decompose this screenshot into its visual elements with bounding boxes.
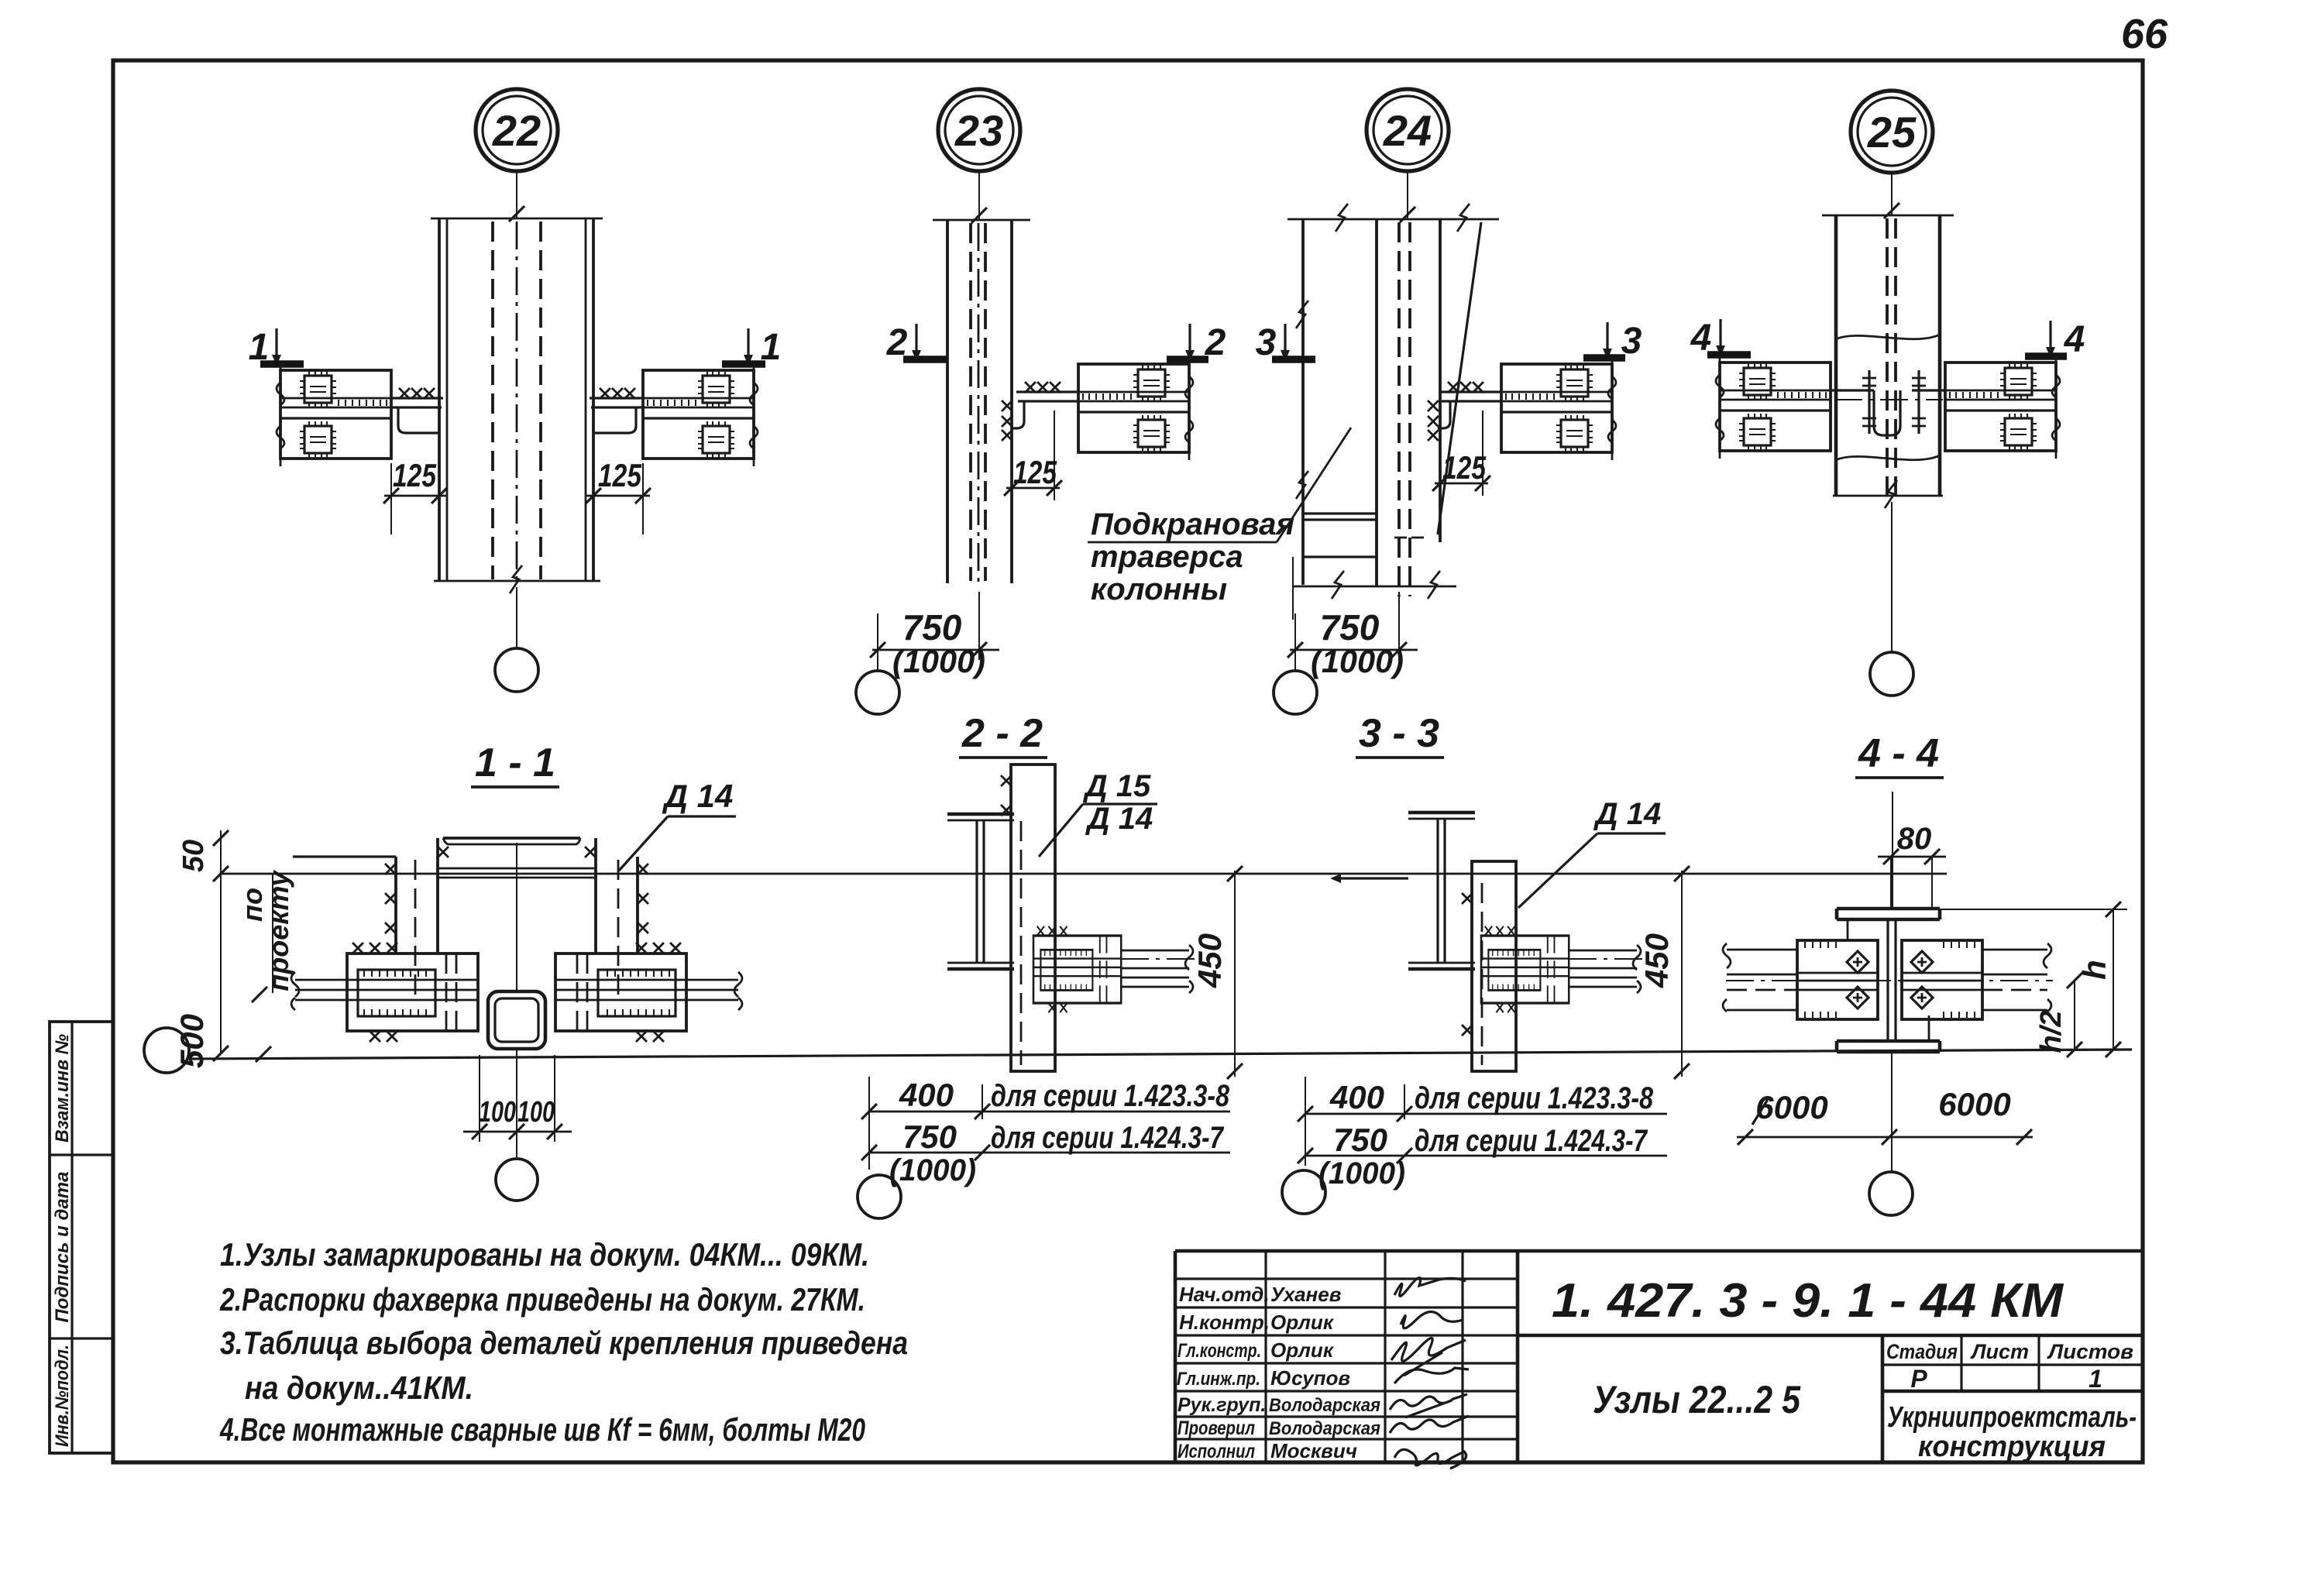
svg-text:100: 100 — [479, 1096, 516, 1129]
svg-text:для серии 1.423.3-8: для серии 1.423.3-8 — [1415, 1081, 1654, 1115]
svg-text:h: h — [2076, 960, 2113, 980]
svg-text:2 - 2: 2 - 2 — [961, 711, 1043, 756]
section mark 1 (left) — [249, 327, 304, 368]
axis bubble below detail 23 — [856, 671, 899, 714]
fastening assembly of detail 24 — [1501, 358, 1616, 460]
svg-text:400: 400 — [1329, 1079, 1384, 1115]
svg-text:750: 750 — [902, 1118, 957, 1155]
dimension h and h/2 — [1940, 902, 2127, 1057]
strut I-beam top flange — [443, 837, 580, 840]
dimension 100 100 — [463, 1055, 572, 1142]
column 23 flange lines — [946, 220, 949, 583]
column 22 axis line — [516, 173, 517, 218]
square tube column — [488, 991, 545, 1049]
crack wave upper — [1836, 335, 1940, 339]
svg-text:для серии 1.424.3-7: для серии 1.424.3-7 — [991, 1121, 1224, 1155]
right splice assembly of 4-4 — [1902, 940, 1982, 1019]
svg-text:Проверил: Проверил — [1177, 1417, 1255, 1439]
gusset plate D15/D14 — [1001, 765, 1055, 1071]
section label 3-3 — [1356, 711, 1444, 758]
section mark 2 (right) — [1167, 322, 1226, 363]
svg-text:1.Узлы замаркированы на докум.: 1.Узлы замаркированы на докум. 04КМ... 0… — [220, 1236, 869, 1273]
gusset plate of section 3-3 — [1462, 861, 1516, 1071]
svg-text:750: 750 — [1320, 607, 1380, 648]
svg-text:Д 14: Д 14 — [1593, 797, 1662, 831]
svg-text:Укрниипроектсталь-: Укрниипроектсталь- — [1887, 1401, 2137, 1434]
svg-text:колонны: колонны — [1091, 572, 1227, 606]
svg-text:Узлы 22...2 5: Узлы 22...2 5 — [1593, 1378, 1801, 1421]
title block (stamp) — [1175, 1251, 2143, 1469]
long upper datum line — [221, 873, 1947, 875]
svg-text:Подкрановая: Подкрановая — [1091, 507, 1294, 541]
section mark 1 (right) — [722, 327, 781, 368]
column 24 top cut line — [1287, 218, 1499, 221]
svg-text:750: 750 — [902, 607, 962, 648]
column 23 hidden lines — [971, 223, 985, 581]
svg-text:Юсупов: Юсупов — [1270, 1366, 1350, 1390]
column 24 web line — [1375, 219, 1378, 586]
svg-text:траверса: траверса — [1091, 540, 1243, 574]
axis bubble below detail 25 — [1870, 652, 1913, 696]
splice U strap — [1874, 390, 1900, 435]
column 22 bottom break — [434, 580, 600, 582]
dimension 750 (1000) of detail 24 — [1287, 592, 1418, 679]
crack wave lower — [1836, 455, 1940, 460]
beam top flange edge left — [293, 855, 396, 857]
signatures — [1394, 1277, 1466, 1296]
svg-text:Стадия: Стадия — [1886, 1340, 1958, 1363]
right fastening assembly of detail 22 — [643, 364, 758, 466]
detail 23 bubble — [938, 89, 1020, 171]
beam stubs right with break — [1569, 950, 1637, 987]
svg-text:450: 450 — [1638, 933, 1675, 988]
svg-text:Рук.груп.: Рук.груп. — [1177, 1394, 1266, 1416]
svg-text:66: 66 — [2121, 11, 2168, 57]
section mark 4 (right) — [2025, 319, 2085, 360]
svg-text:Подпись и дата: Подпись и дата — [52, 1172, 73, 1323]
series table under section 3-3 — [1298, 1077, 1667, 1191]
fachwerk post I-section — [947, 814, 1014, 969]
left beam plate stubs with break — [295, 980, 347, 1000]
section mark 2 (left) — [886, 322, 947, 363]
assembly of section 3-3 — [1481, 926, 1569, 1012]
svg-text:125: 125 — [1442, 449, 1487, 486]
beam stubs right with break — [1121, 950, 1189, 987]
angle cleat of detail 23 — [1012, 401, 1024, 428]
svg-text:Инв.№подл.: Инв.№подл. — [52, 1345, 73, 1447]
svg-text:125: 125 — [393, 457, 437, 493]
left angle cleat — [398, 407, 439, 433]
svg-text:25: 25 — [1867, 108, 1917, 156]
dimension 450 of section 2-2 — [1191, 866, 1243, 1079]
axis line to bubble below 22 — [516, 587, 517, 649]
section label 2-2 — [959, 711, 1047, 758]
svg-text:(1000): (1000) — [1311, 643, 1404, 679]
svg-text:Гл.инж.пр.: Гл.инж.пр. — [1177, 1369, 1260, 1390]
svg-text:(1000): (1000) — [889, 1153, 976, 1187]
svg-text:Москвич: Москвич — [1270, 1439, 1357, 1462]
column 23 axis line — [978, 173, 980, 220]
left assembly of section 1-1 — [347, 943, 478, 1042]
left gusset plate — [385, 838, 449, 999]
column 25 splice hidden line — [1887, 218, 1896, 496]
svg-text:Взам.инв №: Взам.инв № — [52, 1034, 73, 1142]
angle cleat of detail 24 — [1438, 401, 1450, 428]
column H-section bottom flange — [1837, 1041, 1940, 1052]
svg-text:Д 14: Д 14 — [1085, 802, 1153, 836]
svg-text:1: 1 — [2089, 1365, 2102, 1393]
column 23 top cut line — [933, 219, 1030, 222]
svg-text:Н.контр.: Н.контр. — [1179, 1311, 1270, 1334]
svg-text:100: 100 — [517, 1096, 555, 1129]
axis bubble below detail 22 — [495, 648, 538, 692]
column 22 hidden web lines — [493, 222, 541, 579]
section label 4-4 — [1855, 731, 1944, 778]
svg-text:4 - 4: 4 - 4 — [1858, 731, 1939, 776]
section mark 3 (left) — [1256, 322, 1315, 363]
splice bolts — [1862, 370, 1876, 434]
svg-text:3.Таблица выбора деталей крепл: 3.Таблица выбора деталей крепления приве… — [220, 1325, 908, 1361]
series table under section 2-2 — [861, 1077, 1230, 1187]
left splice assembly of 4-4 — [1797, 940, 1878, 1019]
svg-text:23: 23 — [954, 106, 1003, 155]
right tie plate to column — [590, 398, 643, 407]
svg-text:3 - 3: 3 - 3 — [1359, 711, 1439, 756]
beam axis dash-dot — [1726, 980, 2053, 981]
column 22 top cut line — [431, 218, 603, 220]
strut web plan lines — [438, 868, 596, 878]
drawing frame border — [113, 60, 2143, 1462]
label D15/D14 with leader — [1039, 769, 1157, 857]
svg-text:1 - 1: 1 - 1 — [475, 740, 555, 785]
dimension 450 of section 3-3 — [1638, 866, 1690, 1079]
svg-text:50: 50 — [177, 840, 210, 872]
traverse shelf lines — [1303, 514, 1377, 557]
svg-text:проекту: проекту — [263, 869, 294, 991]
svg-text:Р: Р — [1910, 1365, 1927, 1393]
right gusset plate — [585, 838, 648, 999]
axis bubble below series table 1 — [858, 1175, 901, 1218]
dimension 50 / 500 on left — [174, 830, 229, 1068]
section label 1-1 — [471, 740, 559, 787]
strut arrow on datum — [1330, 874, 1408, 883]
crane traverse note — [1088, 428, 1351, 606]
column 24 hidden lines — [1399, 222, 1410, 596]
svg-text:1. 427. 3 - 9. 1 - 44 КМ: 1. 427. 3 - 9. 1 - 44 КМ — [1552, 1274, 2064, 1328]
svg-text:h/2: h/2 — [2035, 1011, 2068, 1053]
column 25 top cut line — [1822, 215, 1954, 217]
svg-text:(1000): (1000) — [892, 643, 985, 679]
left axis bubble of section row — [144, 1028, 189, 1073]
section mark 3 (right) — [1583, 321, 1642, 362]
dimension 6000 6000 — [1737, 1086, 2033, 1145]
svg-text:для серии 1.423.3-8: для серии 1.423.3-8 — [991, 1079, 1230, 1113]
column 25 axis line — [1891, 174, 1893, 215]
column 25 flange lines — [1836, 215, 1940, 496]
svg-text:Володарская: Володарская — [1269, 1418, 1380, 1439]
left tie plate to column — [391, 398, 443, 407]
fachwerk post I-section — [1408, 813, 1475, 969]
svg-text:125: 125 — [1013, 454, 1057, 490]
detail 25 bubble — [1851, 91, 1933, 173]
axis bubble below detail 24 — [1274, 671, 1317, 714]
column H-section top flange — [1837, 909, 1940, 919]
dimension 750 (1000) of detail 23 — [870, 592, 999, 679]
detail 24 bubble — [1367, 89, 1449, 171]
svg-text:на докум..41КМ.: на докум..41КМ. — [245, 1369, 473, 1406]
label D14 with leader — [619, 778, 736, 871]
dimension 80 — [1878, 792, 1946, 909]
svg-text:80: 80 — [1897, 822, 1932, 856]
axis bubble below section 4-4 — [1869, 1172, 1913, 1215]
svg-text:Володарская: Володарская — [1269, 1395, 1380, 1416]
column 24 bottom cut — [1293, 586, 1456, 588]
svg-text:125: 125 — [598, 457, 642, 493]
right beam plate stubs with break — [686, 980, 738, 1000]
svg-text:4.Все монтажные сварные шв К: 4.Все монтажные сварные шв Кf = 6мм, бол… — [219, 1411, 865, 1448]
svg-text:Исполнил: Исполнил — [1177, 1441, 1255, 1462]
svg-text:Орлик: Орлик — [1270, 1311, 1335, 1334]
dimension 125 of detail 23 — [1004, 411, 1062, 500]
axis bubble below series table 2 — [1282, 1170, 1325, 1214]
column 23 centerline — [978, 223, 980, 589]
column 24 outer flange line — [1301, 219, 1305, 585]
left fastening assembly of detail 25 — [1716, 356, 1831, 459]
svg-text:(1000): (1000) — [1318, 1156, 1405, 1191]
svg-text:Нач.отд.: Нач.отд. — [1179, 1283, 1270, 1306]
fastening assembly of detail 23 — [1078, 358, 1193, 460]
note po proektu (rotated) — [236, 869, 294, 1002]
splice tie plates of detail 25 — [1831, 389, 1945, 391]
svg-text:Д 14: Д 14 — [662, 778, 734, 814]
right angle cleat — [595, 407, 636, 433]
section mark 4 (left) — [1690, 318, 1751, 359]
column 24 inner flange line — [1439, 219, 1442, 542]
svg-text:для серии 1.424.3-7: для серии 1.424.3-7 — [1415, 1124, 1648, 1158]
crane rail diagonal — [1438, 222, 1481, 534]
section 1-1 centerline — [516, 843, 517, 1157]
column 22 centerline — [516, 222, 518, 587]
column webs — [1888, 919, 1896, 1041]
axis bubble below section 1-1 — [496, 1159, 538, 1201]
svg-text:450: 450 — [1191, 933, 1228, 988]
tie plate of detail 24 — [1440, 392, 1501, 401]
dimension 125 right of column 22 — [586, 457, 651, 534]
svg-text:Уханев: Уханев — [1270, 1283, 1342, 1306]
left fastening assembly of detail 22 — [277, 364, 391, 466]
right beam stubs with break — [1982, 950, 2047, 1010]
svg-text:Гл.констр.: Гл.констр. — [1177, 1340, 1261, 1362]
section 4-4 centerline down — [1891, 1052, 1893, 1171]
tie plate of detail 23 — [1016, 392, 1078, 401]
assembly of section 2-2 — [1033, 926, 1121, 1012]
svg-text:500: 500 — [174, 1014, 210, 1068]
left beam stubs with break — [1727, 950, 1797, 1010]
column 25 bottom break — [1833, 495, 1943, 497]
axis line to bubble below 25 — [1891, 502, 1893, 652]
svg-text:Орлик: Орлик — [1270, 1338, 1335, 1362]
svg-text:22: 22 — [492, 106, 541, 155]
svg-text:6000: 6000 — [1938, 1086, 2010, 1122]
left filing strip — [50, 1022, 113, 1453]
svg-text:400: 400 — [899, 1077, 954, 1113]
dimension 125 of detail 24 — [1432, 411, 1490, 496]
right assembly of section 1-1 — [555, 943, 686, 1042]
column 24 axis line — [1407, 173, 1408, 219]
column 22 flange lines — [439, 218, 593, 581]
svg-text:24: 24 — [1383, 106, 1432, 155]
svg-text:6000: 6000 — [1755, 1089, 1827, 1125]
detail 22 bubble — [476, 89, 558, 171]
svg-text:2.Распорки фахверка приведены: 2.Распорки фахверка приведены на докум. … — [219, 1281, 865, 1318]
dimension 125 left of column 22 — [383, 457, 447, 534]
svg-text:Лист: Лист — [1970, 1340, 2029, 1363]
right fastening assembly of detail 25 — [1945, 356, 2060, 459]
svg-text:Листов: Листов — [2047, 1340, 2133, 1363]
svg-text:750: 750 — [1333, 1122, 1387, 1158]
svg-text:Д 15: Д 15 — [1083, 769, 1151, 803]
svg-text:конструкция: конструкция — [1918, 1431, 2106, 1463]
long lower datum line — [189, 1050, 2132, 1059]
label D14 with leader — [1518, 797, 1666, 908]
